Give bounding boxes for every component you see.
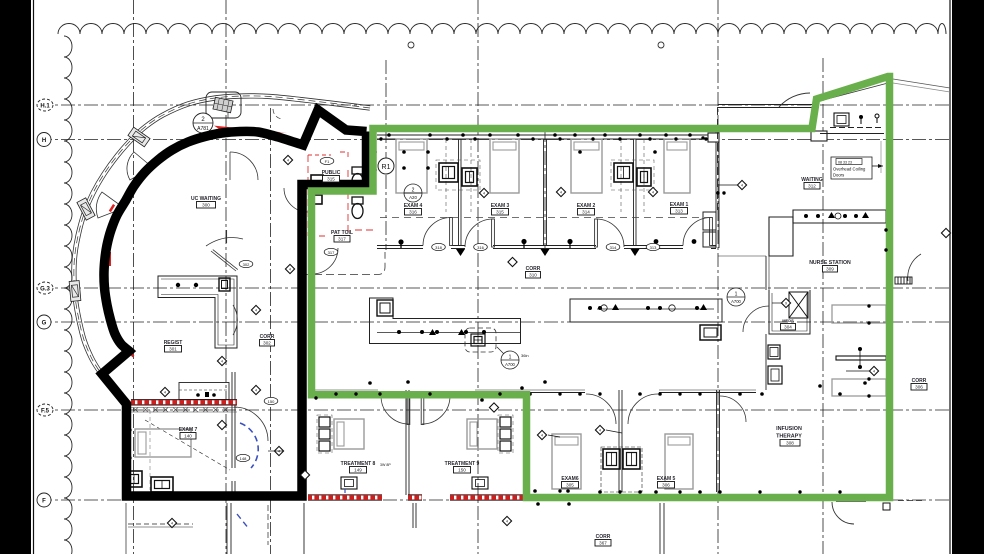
public door swing arc xyxy=(284,188,308,212)
dots along treatment top wall xyxy=(528,392,532,396)
exam6|exam5 partition xyxy=(618,390,620,492)
meds door arc xyxy=(743,306,769,332)
exam rooms top band xyxy=(377,131,719,249)
central counter right xyxy=(570,299,722,322)
svg-text:2: 2 xyxy=(412,188,415,194)
exam bed 3 xyxy=(490,139,519,193)
casework exam4/3 b xyxy=(462,168,477,186)
exam7 interior dashed xyxy=(145,420,230,470)
grid vline E xyxy=(477,0,479,554)
svg-text:4: 4 xyxy=(506,520,508,524)
svg-text:4: 4 xyxy=(164,391,166,395)
exam4 door xyxy=(423,218,451,246)
lab devices on counter xyxy=(397,329,486,335)
svg-text:313: 313 xyxy=(650,245,657,250)
right black bar xyxy=(952,0,984,554)
waiting left wall xyxy=(717,107,719,210)
svg-text:4: 4 xyxy=(560,191,562,195)
svg-text:313: 313 xyxy=(675,209,683,214)
left black bar xyxy=(0,0,31,554)
exam7 door arc xyxy=(234,407,268,441)
svg-text:150: 150 xyxy=(458,468,466,473)
treatment casework dashed boxes xyxy=(317,415,513,453)
A700 circle left xyxy=(501,351,519,369)
right outside corridor door arc xyxy=(908,254,921,281)
insulated wall hatch below red xyxy=(131,408,237,413)
grid line G xyxy=(38,321,949,323)
R1 circle tag xyxy=(378,158,394,174)
svg-text:4: 4 xyxy=(652,191,654,195)
pat toil dashed boundary xyxy=(302,252,385,275)
diamond at 222,361 xyxy=(217,356,226,365)
grid line H xyxy=(38,139,949,141)
treatment partition T8|T9 xyxy=(405,390,407,495)
svg-text:314: 314 xyxy=(610,245,617,250)
diamond at 561,192 xyxy=(556,187,565,196)
svg-text:Overhead Coiling: Overhead Coiling xyxy=(833,167,866,172)
regist transaction arc xyxy=(233,305,237,335)
svg-text:F: F xyxy=(42,499,46,505)
grid vline G2 xyxy=(717,0,719,554)
keynote diamonds xyxy=(217,420,226,429)
door wedge on curve wall 2 xyxy=(96,192,124,218)
pat toil door arc xyxy=(312,248,338,274)
mullion block 1 xyxy=(128,127,150,147)
grid line H.1 xyxy=(38,104,949,106)
treatment9 bed xyxy=(467,419,497,449)
diamond at 290,269 xyxy=(285,264,294,273)
heavy black demolition/scope outline (left building) xyxy=(102,110,367,496)
svg-text:A700: A700 xyxy=(731,299,741,304)
dots along bottom wall xyxy=(533,489,537,493)
red dashed room outline public/pat toil xyxy=(308,152,376,236)
svg-text:4: 4 xyxy=(278,450,280,454)
svg-text:301: 301 xyxy=(169,347,177,352)
svg-text:317: 317 xyxy=(328,250,335,255)
svg-text:4: 4 xyxy=(171,522,173,526)
svg-text:4: 4 xyxy=(289,268,291,272)
exam bed 2 xyxy=(571,139,602,193)
dots on exam top wall xyxy=(387,133,391,137)
exam5 right wall xyxy=(716,390,718,492)
glass curtain wall arc inner line xyxy=(76,98,370,373)
partition EXAM2|EXAM1 xyxy=(633,139,635,245)
partition EXAM3|EXAM2 xyxy=(543,139,545,246)
svg-text:3W 8P: 3W 8P xyxy=(380,463,391,467)
svg-text:R1: R1 xyxy=(382,164,391,171)
exam7 oval tag xyxy=(236,454,250,461)
svg-text:302: 302 xyxy=(263,341,271,346)
A20 circle tag xyxy=(404,184,422,202)
note arrow xyxy=(872,165,883,167)
blue dashed door swing exam7 xyxy=(237,423,258,529)
nurse counter devices xyxy=(804,212,869,218)
exam7 right wall xyxy=(232,372,235,496)
right counter sink xyxy=(700,325,721,340)
grid bubble H xyxy=(37,133,51,147)
treatment8 wall casework xyxy=(319,417,330,451)
mullion block 2 xyxy=(77,198,95,220)
treatment9 wall casework xyxy=(500,417,511,451)
casework exam4/3 a xyxy=(439,163,458,182)
A700 circle right xyxy=(727,288,745,306)
grid bubble G xyxy=(37,315,51,329)
meds shelving X box xyxy=(789,292,808,318)
oval tag 302 xyxy=(239,260,253,267)
corridor north wall xyxy=(377,245,716,247)
svg-text:305: 305 xyxy=(566,483,574,488)
svg-text:306: 306 xyxy=(662,483,670,488)
grid vline H2 xyxy=(822,58,824,554)
oval tag pat toil xyxy=(324,248,338,255)
heavy green scope outline (right area) xyxy=(312,77,890,498)
svg-text:9: 9 xyxy=(785,302,787,306)
PAT TOIL fixtures xyxy=(311,195,363,219)
blue dash small near treat8 xyxy=(344,489,346,493)
svg-text:317: 317 xyxy=(338,237,346,242)
exam6 bed xyxy=(552,434,581,489)
diamond near corr xyxy=(508,257,517,266)
mullion block 3 xyxy=(69,281,81,302)
UC waiting dashed room boundary xyxy=(273,109,283,119)
exam bed 1 xyxy=(664,139,690,193)
exam1 right wall cabinets xyxy=(703,212,716,247)
revision cloud border xyxy=(58,24,946,35)
partition dashed centerlines exam rooms xyxy=(436,139,654,212)
grid bubble F.5 xyxy=(37,404,53,416)
treatment8 bed xyxy=(334,419,364,449)
svg-text:315: 315 xyxy=(496,210,504,215)
glass wall centerline dashed xyxy=(74,96,370,375)
svg-text:149: 149 xyxy=(354,468,362,473)
red hatched wall treatment8 bottom xyxy=(308,495,382,501)
treatment8 label devices T xyxy=(341,477,357,489)
right counter devices xyxy=(588,304,707,310)
treatment rooms top wall xyxy=(145,372,890,496)
diamond at 507,521 xyxy=(502,516,511,525)
diamond at 305,475 xyxy=(300,470,309,479)
entry canopy thin lines to right xyxy=(893,79,950,88)
registration counter L xyxy=(158,276,237,348)
svg-text:308: 308 xyxy=(786,441,794,446)
svg-text:F1: F1 xyxy=(325,159,330,164)
svg-text:Doors: Doors xyxy=(833,173,844,178)
diamond at 786,303 xyxy=(781,298,790,307)
svg-text:4: 4 xyxy=(221,360,223,364)
counter above exam7 xyxy=(179,383,229,400)
diamond at 288,160 xyxy=(283,155,292,164)
svg-text:4: 4 xyxy=(287,159,289,163)
meds room walls xyxy=(769,290,810,334)
exam door arcs xyxy=(423,218,712,248)
storefront line under green diagonal xyxy=(814,83,888,103)
grid vline D xyxy=(385,60,387,250)
diamond leaders xyxy=(268,185,869,451)
svg-text:316: 316 xyxy=(477,245,484,250)
red wedge on arc top xyxy=(214,126,287,133)
glass curtain wall arc outer line xyxy=(72,94,371,377)
exam3 door xyxy=(465,219,493,247)
vestibule door arc left of public xyxy=(230,152,258,180)
exam bed 4 xyxy=(396,139,427,193)
grid bubble H.1 xyxy=(37,99,53,111)
svg-text:36in: 36in xyxy=(521,353,529,358)
svg-text:314: 314 xyxy=(582,210,590,215)
svg-text:4: 4 xyxy=(599,429,601,433)
exam top wall inner lines xyxy=(377,134,716,136)
infusion bay 2 xyxy=(832,379,886,396)
vestibule casework above waiting xyxy=(834,113,849,126)
red hatch small mid xyxy=(408,495,422,501)
svg-text:H: H xyxy=(42,138,46,144)
svg-text:315: 315 xyxy=(327,177,335,182)
grid vline A xyxy=(133,0,135,554)
exam2 door xyxy=(596,219,624,247)
infusion side table xyxy=(836,350,886,366)
partition tee triangles xyxy=(456,249,465,256)
nurse area inner walls xyxy=(718,256,769,390)
infusion west door arc xyxy=(720,396,746,422)
svg-text:306: 306 xyxy=(915,385,923,390)
diamond at 946,233 xyxy=(941,228,950,237)
grid bubble G.3 xyxy=(37,282,53,294)
threshold hatched block xyxy=(895,277,912,284)
nurse med prep casework xyxy=(768,345,782,384)
extra wall dots xyxy=(379,137,382,140)
oval tag below regist xyxy=(264,397,278,404)
grid bubble F xyxy=(37,493,51,507)
svg-text:300: 300 xyxy=(202,203,210,208)
svg-text:4: 4 xyxy=(255,309,257,313)
svg-text:08 33 23: 08 33 23 xyxy=(838,161,852,165)
exam7 casework bottom xyxy=(126,471,142,487)
left sheet border line xyxy=(33,0,35,554)
casework exam2/1 b xyxy=(637,168,651,186)
diamond at 653,192 xyxy=(648,187,657,196)
diamond near green corner xyxy=(489,403,498,412)
svg-text:316: 316 xyxy=(409,210,417,215)
grid vline B xyxy=(225,0,227,554)
svg-text:4: 4 xyxy=(541,434,543,438)
grid vline C xyxy=(270,108,272,554)
treatment door arcs xyxy=(381,396,409,424)
EXAM1 right wall xyxy=(715,131,717,248)
svg-text:304: 304 xyxy=(784,325,792,330)
small fixtures above exam7 counter xyxy=(196,392,216,397)
svg-text:MEDS: MEDS xyxy=(782,318,794,323)
central counter left (lab) xyxy=(370,298,521,344)
svg-text:G.3: G.3 xyxy=(40,287,50,293)
leader from ATB to column xyxy=(213,112,228,118)
uc waiting door arc xyxy=(206,230,243,271)
diamond at 600,430 xyxy=(595,425,604,434)
svg-text:4: 4 xyxy=(255,389,257,393)
diamond at 742,185 xyxy=(737,180,746,189)
grid line F.5 xyxy=(38,409,949,411)
bottom strip walls below F line xyxy=(126,503,664,554)
bottom right door arc outside green xyxy=(832,502,854,524)
lab sink xyxy=(377,300,393,316)
partition EXAM4|EXAM3 xyxy=(458,139,460,245)
cubicle curtain dashed line xyxy=(380,217,716,219)
diamond at 542,435 xyxy=(537,430,546,439)
grid vline F2 xyxy=(544,128,546,250)
svg-text:140: 140 xyxy=(184,434,192,439)
red hatched wall treatment9 bottom xyxy=(450,495,523,501)
overhead coiling doors note box xyxy=(831,157,872,179)
oval tag public xyxy=(320,157,334,164)
diamond at 256,390 xyxy=(251,385,260,394)
grid line F xyxy=(38,499,949,501)
exam5 bed xyxy=(665,434,693,489)
sprinkler circle 2 xyxy=(658,42,664,48)
diamond at 874,371 xyxy=(869,366,878,375)
column hatched block xyxy=(213,97,233,112)
red tick on arc left xyxy=(109,204,115,212)
right wing: waiting room walls xyxy=(708,133,719,142)
grid line G.3 xyxy=(38,287,949,289)
svg-text:F.5: F.5 xyxy=(41,409,50,415)
ATB detail circle xyxy=(193,113,213,133)
svg-text:A20: A20 xyxy=(409,195,417,200)
svg-text:148: 148 xyxy=(240,456,247,461)
svg-text:367: 367 xyxy=(599,541,607,546)
diamond at 172,523 xyxy=(167,518,176,527)
svg-text:4: 4 xyxy=(483,192,485,196)
svg-text:318: 318 xyxy=(435,245,442,250)
svg-text:THERAPY: THERAPY xyxy=(776,434,802,440)
red hatched wall below regist xyxy=(131,400,237,406)
exam1 door xyxy=(683,218,711,246)
right sheet border line xyxy=(949,0,951,554)
svg-text:1: 1 xyxy=(509,355,512,361)
door tag ovals corridor xyxy=(432,243,446,250)
svg-text:4: 4 xyxy=(873,370,875,374)
svg-text:302: 302 xyxy=(243,262,250,267)
waiting entry door arc xyxy=(779,93,810,107)
sprinkler circle 1 xyxy=(408,42,414,48)
svg-text:310: 310 xyxy=(529,273,537,278)
infusion bay 1 xyxy=(832,305,886,323)
corridor wall dots xyxy=(398,239,403,244)
regist sink xyxy=(219,278,230,291)
exam7 bed xyxy=(135,429,191,457)
lab equipment grid box xyxy=(465,328,496,352)
diamond at 279,451 xyxy=(274,446,283,455)
PUBLIC toilet fixture xyxy=(311,167,363,189)
svg-text:312: 312 xyxy=(808,184,816,189)
svg-text:G: G xyxy=(42,321,47,327)
diamond at 256,310 xyxy=(251,305,260,314)
svg-text:4: 4 xyxy=(741,184,743,188)
exam6/5 casework cluster xyxy=(603,449,620,469)
svg-text:A700: A700 xyxy=(505,362,515,367)
svg-text:H.1: H.1 xyxy=(40,104,50,110)
diamond at 484,193 xyxy=(479,188,488,197)
column marker rounded rect at arc top xyxy=(206,92,241,118)
svg-text:1: 1 xyxy=(735,292,738,298)
door wedge on curve wall 1 xyxy=(127,152,152,180)
casework exam2/1 a xyxy=(614,163,633,182)
svg-text:309: 309 xyxy=(826,267,834,272)
nurse station counter xyxy=(769,210,886,256)
svg-text:150: 150 xyxy=(268,399,275,404)
svg-text:INFUSION: INFUSION xyxy=(776,426,802,432)
diamond at 165,392 xyxy=(160,387,169,396)
